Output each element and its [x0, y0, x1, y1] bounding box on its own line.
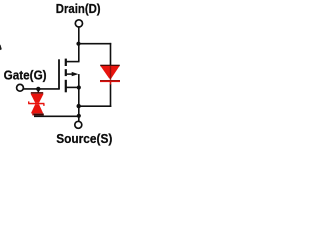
mosfet Q1: source lead	[66, 86, 79, 88]
gate zener ZD1: middle bar right down-tick	[43, 104, 44, 106]
mosfet Q1: drain lead	[66, 61, 80, 63]
mosfet Q1: channel segment top	[65, 59, 67, 66]
mosfet Q1: body arrow (points right)	[72, 72, 79, 76]
body diode D1: cathode bar	[100, 80, 120, 82]
terminal circle: Drain	[75, 20, 82, 27]
wire: bottom left horizontal (zener return)	[34, 115, 79, 117]
wire: drain terminal to top junction / drain lead riser	[78, 27, 80, 61]
svg-text:Drain(D): Drain(D)	[56, 2, 101, 16]
svg-text:Source(S): Source(S)	[56, 132, 112, 146]
wire: mosfet body/source vertical down to source terminal	[78, 74, 80, 121]
body diode D1: red cathode stub	[110, 82, 112, 85]
svg-text:Gate(G): Gate(G)	[4, 69, 47, 83]
body diode D1: wire seen through triangle	[110, 66, 111, 80]
junction dot: bottom right branch	[77, 104, 81, 108]
stray glyph fragment at left edge	[0, 44, 2, 50]
body diode D1: top edge (anode side)	[100, 65, 120, 67]
body diode D1: triangle	[101, 66, 120, 79]
wire: gate horizontal	[24, 88, 60, 90]
gate zener ZD1: top bar	[31, 92, 43, 94]
wire: diode bottom to lower right corner	[110, 84, 112, 107]
terminal circle: Gate	[17, 84, 24, 91]
junction dot: mosfet source lead	[77, 85, 81, 89]
junction dot: bottom left (zener return)	[77, 114, 81, 118]
mosfet Q1: channel segment bottom	[65, 80, 67, 93]
gate zener ZD1: middle bar	[28, 103, 44, 105]
wire: bottom right horizontal	[78, 105, 111, 107]
mosfet Q1: gate bar	[58, 59, 60, 89]
gate zener ZD1: bottom bar	[33, 114, 43, 116]
gate zener ZD1: upper triangle (points down, blunt tip)	[31, 94, 44, 103]
mosfet Q1: channel segment middle	[65, 69, 67, 76]
gate zener ZD1: lower triangle (points up, blunt tip)	[31, 104, 43, 113]
wire: right branch down to diode	[110, 43, 112, 65]
terminal circle: Source	[75, 121, 82, 128]
gate zener ZD1: middle bar left up-tick	[28, 101, 29, 103]
wire: zener top stub	[37, 89, 39, 93]
wire: top horizontal to right branch	[79, 43, 111, 45]
junction dot: gate / zener tap	[36, 87, 40, 91]
mosfet Q1: body lead	[66, 73, 74, 75]
junction dot: top (drain branch)	[76, 42, 80, 46]
gate zener ZD1: bottom bar left wing (red tick)	[32, 113, 33, 115]
